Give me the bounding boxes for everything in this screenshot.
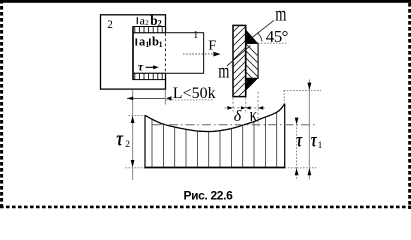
weld strip top (plan) <box>133 27 165 33</box>
frame top border <box>0 0 411 3</box>
dotted horizontal tau1 top <box>284 89 321 91</box>
45 deg reference line <box>258 42 288 44</box>
weld strip bottom (plan) <box>133 73 165 79</box>
svg-text:m: m <box>275 2 286 25</box>
L dimension extension line right <box>164 90 166 105</box>
dotted extension top-left corner <box>129 114 145 116</box>
svg-text:L<50k: L<50k <box>173 85 216 102</box>
svg-text:2: 2 <box>125 140 130 150</box>
svg-text:m: m <box>218 59 229 82</box>
left edge of stress shape <box>144 115 146 167</box>
45 deg arc <box>257 33 262 42</box>
right edge of stress shape <box>284 104 286 168</box>
leader m top <box>251 20 275 39</box>
weld fillet top (black) <box>246 30 258 44</box>
label m top <box>275 2 286 25</box>
svg-text:1: 1 <box>193 30 198 41</box>
frame bottom border <box>0 206 411 209</box>
svg-text:τ: τ <box>138 59 144 73</box>
svg-text:1: 1 <box>145 40 149 49</box>
plate 1 (overlapping strap) <box>133 33 204 74</box>
hatch of left strip <box>229 16 249 106</box>
svg-text:1: 1 <box>159 40 163 49</box>
label tau1 <box>311 129 318 151</box>
label kappa <box>250 104 258 125</box>
L dimension line <box>127 97 165 99</box>
svg-text:τ: τ <box>116 127 123 152</box>
plate 2 outline <box>101 15 166 89</box>
svg-text:F: F <box>208 39 216 54</box>
svg-text:2: 2 <box>157 18 162 28</box>
L dimension extension line left (also tau2 dim line) <box>132 90 134 181</box>
leader m left <box>227 46 251 67</box>
force F arrow <box>183 53 214 55</box>
svg-text:κ: κ <box>250 104 258 125</box>
label tau2 <box>116 127 123 152</box>
svg-text:Рис. 22.6: Рис. 22.6 <box>184 188 234 202</box>
hatch lines of stress diagram <box>152 98 277 168</box>
frame right border <box>408 3 411 209</box>
svg-text:2: 2 <box>145 19 149 27</box>
plate 1 left edge <box>132 27 134 80</box>
side view: plate delta (left strip) <box>233 25 246 96</box>
svg-text:1: 1 <box>318 141 323 151</box>
stress curve <box>145 104 285 132</box>
dash-dot mid reference line <box>153 124 317 126</box>
svg-text:δ: δ <box>234 108 242 125</box>
weld fillet bottom (black) <box>246 78 258 91</box>
hidden edge of plate 2 under plate 1 <box>164 34 166 73</box>
side view: plate kappa (right strip) <box>246 43 258 78</box>
svg-text:2: 2 <box>107 19 113 31</box>
bottom edge thick <box>144 167 285 169</box>
dotted vertical right corner <box>283 90 285 103</box>
dotted extension bottom-left <box>126 167 145 169</box>
tau1 dimension line <box>308 80 310 180</box>
svg-text:45°: 45° <box>266 27 288 46</box>
label a1 b1 <box>136 35 162 49</box>
svg-text:τ: τ <box>296 129 303 151</box>
label m left <box>218 59 229 82</box>
label tau <box>296 129 303 151</box>
tau dimension line <box>296 118 298 180</box>
label a2 b2 <box>137 13 162 29</box>
delta kappa dimension <box>232 97 234 111</box>
frame left border <box>0 0 3 209</box>
tau2 dimension arrows <box>131 116 135 123</box>
dotted extension bottom-right <box>285 167 317 169</box>
boundary between strips <box>245 25 247 96</box>
hatch of right strip <box>242 40 262 95</box>
stress diagram shape <box>145 104 285 168</box>
